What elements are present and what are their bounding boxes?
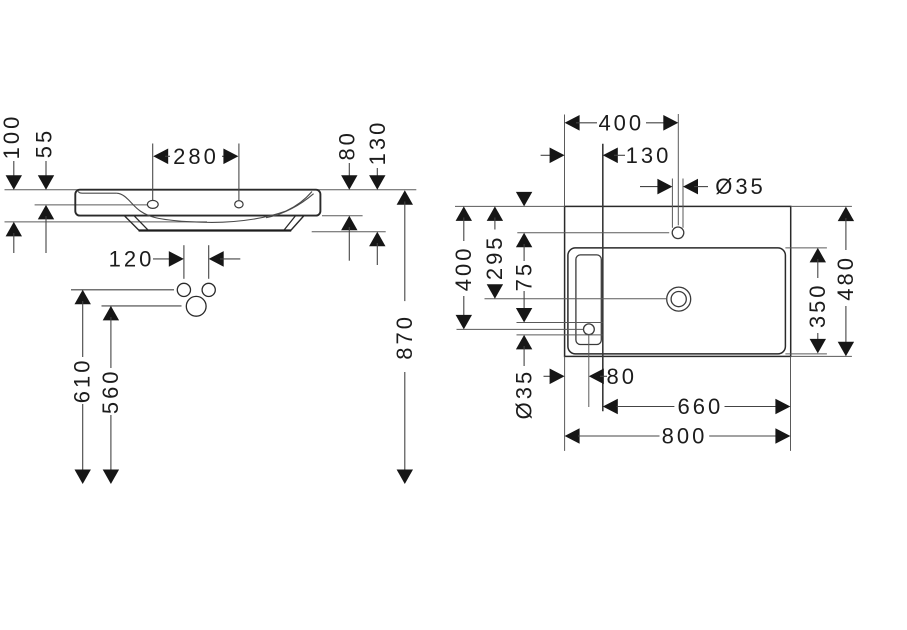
dimension diameter 35 (tap hole)	[640, 174, 766, 199]
dimension 80 (elevation)	[335, 130, 360, 261]
wire: left edge extension up	[564, 115, 566, 207]
basin inner rim curve right	[266, 194, 314, 218]
dimension 75	[511, 192, 536, 366]
basin underbowl outline	[124, 216, 304, 231]
wire: 55 leader line to tap hole	[35, 204, 148, 206]
dimension 130 (elevation)	[365, 120, 390, 265]
dimension 400 horizontal	[565, 110, 679, 135]
dimension 120	[109, 245, 241, 279]
basin slab outline	[75, 190, 320, 216]
svg-text:400: 400	[451, 246, 476, 292]
tap hole (plan)	[672, 227, 684, 239]
wire: drain centre leader	[485, 298, 667, 300]
dimension 660	[603, 394, 791, 419]
wire: rect top extension right	[791, 205, 852, 207]
wire: left edge extension down	[564, 356, 566, 451]
overflow hole (plan)	[584, 324, 595, 335]
svg-text:660: 660	[678, 394, 724, 419]
svg-text:800: 800	[662, 424, 708, 449]
dimension 800	[565, 424, 791, 449]
wire: rect bottom extension right	[791, 355, 852, 357]
wire: rect top extension left	[455, 205, 565, 207]
wire: bowl bottom extension right	[785, 353, 827, 355]
basin bracket left	[134, 216, 148, 230]
svg-text:480: 480	[833, 255, 858, 301]
dimension 130 horizontal	[541, 143, 672, 168]
bowl rim (plan)	[568, 248, 786, 354]
svg-text:80: 80	[607, 364, 637, 389]
dimension 560	[98, 306, 182, 484]
wire: overflow centre leader	[457, 328, 584, 330]
wire: bowl top extension right	[785, 247, 827, 249]
svg-text:Ø35: Ø35	[715, 174, 766, 199]
dimension 55	[32, 128, 57, 253]
wire: tap hole dia extension right	[682, 179, 684, 228]
dimension 400 vertical	[451, 206, 476, 329]
wire: tap hole centre leader	[517, 232, 669, 234]
svg-text:400: 400	[598, 110, 644, 135]
svg-text:560: 560	[98, 368, 123, 414]
mounting hole small right	[202, 283, 215, 296]
shelf inner outline (plan)	[576, 255, 601, 345]
drain hole (elevation)	[186, 296, 206, 316]
dimension 100	[0, 114, 24, 253]
basin underbowl bottom	[139, 229, 292, 231]
drain inner circle	[671, 292, 686, 307]
svg-text:295: 295	[482, 234, 507, 280]
dimension 80 (plan)	[544, 364, 638, 389]
drain outer circle	[667, 287, 691, 311]
wire: tap hole vertical extensions for 280	[152, 144, 154, 201]
basin inner bowl curve	[117, 192, 312, 223]
dimension 350	[805, 248, 830, 354]
svg-text:75: 75	[511, 261, 536, 291]
dimension 295	[482, 206, 507, 298]
svg-text:130: 130	[365, 120, 390, 166]
svg-text:280: 280	[173, 144, 219, 169]
wire: overflow hole vertical extension	[588, 335, 590, 407]
svg-text:Ø35: Ø35	[511, 369, 536, 420]
basin outer rect (plan)	[565, 206, 791, 356]
wire: 80 extension line right	[322, 215, 363, 217]
wire: right edge extension down	[790, 356, 792, 451]
tap hole right (elevation)	[235, 201, 243, 208]
tap hole left (elevation)	[147, 200, 158, 208]
svg-text:130: 130	[626, 143, 672, 168]
wire: 130 extension line right	[312, 231, 386, 233]
svg-text:100: 100	[0, 114, 24, 160]
svg-text:350: 350	[805, 282, 830, 328]
dimension 280	[153, 144, 238, 169]
svg-text:55: 55	[32, 128, 57, 158]
dimension 610	[70, 290, 175, 484]
wire: 100 leader line	[5, 221, 208, 223]
svg-text:120: 120	[109, 246, 155, 271]
mounting hole small left	[177, 283, 190, 296]
dimension 870	[392, 190, 417, 484]
wire: overflow dia extension bottom	[517, 334, 603, 336]
svg-text:610: 610	[70, 358, 95, 404]
wire: tap hole centre extension up	[677, 114, 679, 225]
wire: top reference line y=189.7	[5, 189, 417, 191]
dimension 480	[833, 207, 858, 357]
basin inner deck edge	[78, 191, 116, 193]
wire: 660/130 extension long vertical	[602, 144, 604, 412]
wire: tap hole dia extension left	[671, 179, 673, 228]
basin bracket right	[284, 216, 295, 230]
svg-text:870: 870	[392, 314, 417, 360]
wire: overflow dia extension top	[517, 322, 603, 324]
svg-text:80: 80	[335, 130, 360, 160]
